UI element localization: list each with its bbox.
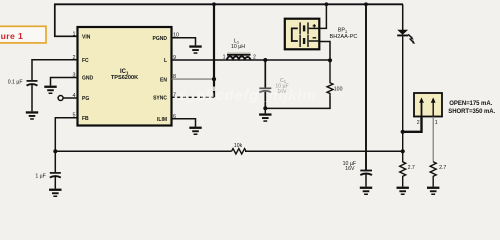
- ground (GND pin): [44, 86, 56, 94]
- wire GND pin to ground: [51, 78, 78, 86]
- node LED cathode / pin2 junction: [401, 130, 405, 134]
- wire 10uF riser from bus: [365, 4, 367, 170]
- pin ILIM (6): [157, 114, 176, 123]
- node output junction at C1: [263, 58, 267, 62]
- ground (2.7 right): [427, 187, 439, 195]
- wire PG open terminal: [63, 97, 77, 99]
- ground (C1): [259, 108, 271, 122]
- wire FB down to feedback node: [55, 118, 77, 173]
- resistor 100: [327, 60, 343, 96]
- wire riser bus to EN/SYNC: [213, 4, 215, 97]
- svg-text:SHORT=350 mA.: SHORT=350 mA.: [448, 109, 495, 115]
- resistor 10k: [232, 143, 246, 154]
- pin FC (2): [73, 55, 90, 64]
- svg-text:VIN: VIN: [82, 35, 91, 41]
- watermark overlay: [178, 87, 317, 104]
- pin L (9): [164, 55, 176, 64]
- wire top supply bus: [54, 3, 403, 5]
- svg-text:10 µH: 10 µH: [231, 44, 245, 50]
- IC1 name label: [111, 69, 138, 81]
- svg-text:GND: GND: [82, 76, 94, 82]
- node output junction at R1: [328, 58, 332, 62]
- resistor 2.7 (right): [430, 162, 446, 187]
- svg-text:TPS6200K: TPS6200K: [111, 75, 138, 81]
- ground (2.7 left): [397, 187, 409, 195]
- switch arrows: [419, 97, 436, 116]
- svg-text:EN: EN: [160, 77, 167, 83]
- svg-text:s_abcdefg_hijklm: s_abcdefg_hijklm: [178, 87, 317, 104]
- pin GND (3): [73, 73, 94, 82]
- pin PG (4): [73, 93, 90, 102]
- figure label box "Figure 1": [0, 26, 46, 43]
- pin PGND (10): [153, 33, 179, 42]
- wire PGND to ground: [172, 38, 196, 46]
- node FB junction: [53, 149, 57, 153]
- ground (PGND): [189, 45, 201, 53]
- wire EN tie-high: [172, 78, 215, 80]
- pin VIN (1): [73, 31, 91, 40]
- battery BP1 label: [330, 28, 358, 40]
- wire FC to 0.1uF branch: [32, 60, 78, 80]
- ground (0.1uF): [26, 111, 38, 119]
- capacitor 0.1uF: [8, 80, 38, 86]
- svg-text:100: 100: [334, 87, 343, 93]
- capacitor 1uF (feedback): [35, 173, 60, 179]
- svg-text:BH2AA-PC: BH2AA-PC: [330, 34, 358, 40]
- wire ILIM to ground: [172, 119, 196, 127]
- pin FB (5): [73, 113, 90, 122]
- resistor 2.7 (left): [400, 151, 415, 186]
- wire feedback 10k row: [55, 150, 402, 152]
- LED: [397, 30, 415, 44]
- wire 0.1uF to ground: [31, 85, 33, 111]
- capacitor C1 10uF 16V (washed by watermark): [259, 78, 288, 95]
- wire C1 to ground node: [264, 92, 266, 109]
- wire L pin to inductor: [172, 59, 331, 61]
- svg-text:OPEN=175 mA.: OPEN=175 mA.: [449, 101, 492, 107]
- svg-text:L: L: [164, 58, 167, 64]
- svg-text:1: 1: [223, 54, 226, 60]
- node 10uF bus junction: [364, 2, 368, 6]
- svg-text:gure 1: gure 1: [0, 31, 23, 41]
- ground (ILIM): [189, 127, 201, 135]
- svg-text:0.1 µF: 0.1 µF: [8, 80, 23, 86]
- svg-text:PG: PG: [82, 96, 89, 102]
- switch note OPEN/SHORT: [448, 101, 495, 115]
- wire 100-ohm bottom to C1 ground node: [265, 96, 330, 108]
- wire battery + to bus: [319, 4, 326, 28]
- node PG open circle: [58, 96, 63, 101]
- node C1 ground junction: [263, 106, 267, 110]
- svg-text:SYNC: SYNC: [153, 96, 167, 102]
- node bus/riser junction: [212, 2, 216, 6]
- svg-text:PGND: PGND: [153, 36, 168, 42]
- svg-text:10k: 10k: [234, 143, 243, 149]
- svg-text:1: 1: [73, 31, 76, 37]
- svg-text:2.7: 2.7: [439, 165, 446, 171]
- svg-text:1 µF: 1 µF: [35, 173, 45, 179]
- wire battery - to output node: [319, 42, 330, 61]
- wire switch pin 1 down: [432, 117, 434, 162]
- node battery + bus junction: [325, 2, 329, 6]
- pin EN (8): [160, 74, 176, 83]
- wire LED cathode down: [402, 36, 404, 151]
- pin SYNC (7): [153, 92, 176, 101]
- ground (10uF): [360, 187, 372, 195]
- svg-text:FC: FC: [82, 58, 89, 64]
- battery cells inside BP1: [292, 22, 320, 47]
- wire output node down to C1: [264, 60, 266, 88]
- capacitor 10uF 16V input: [343, 161, 372, 175]
- node feedback / LED cathode junction: [401, 149, 405, 153]
- wire 1uF to ground: [54, 177, 56, 189]
- inductor L1 10uH: [223, 39, 256, 61]
- wire switch pin 2 to LED cathode: [403, 117, 422, 132]
- svg-text:2.7: 2.7: [408, 165, 415, 171]
- IC IC1 (TPS6200K regulator) body: [78, 27, 172, 126]
- wire SYNC tie-high (washed by watermark, appears dashed): [172, 96, 215, 98]
- svg-text:16V: 16V: [345, 166, 355, 172]
- wire VIN riser from bus: [55, 4, 78, 36]
- node EN junction: [212, 77, 216, 81]
- svg-text:FB: FB: [82, 116, 89, 122]
- battery BP1 holder box: [285, 19, 320, 50]
- wire LED anode from bus: [402, 4, 404, 30]
- svg-text:2: 2: [417, 120, 420, 126]
- svg-text:2: 2: [253, 54, 256, 60]
- svg-text:ILIM: ILIM: [157, 117, 167, 123]
- svg-text:1: 1: [435, 120, 438, 126]
- switch (current-set jumper) box: [414, 93, 442, 117]
- wire 10uF to ground: [365, 174, 367, 186]
- ground (1uF): [49, 189, 61, 197]
- watermark gap on riser: [212, 87, 217, 92]
